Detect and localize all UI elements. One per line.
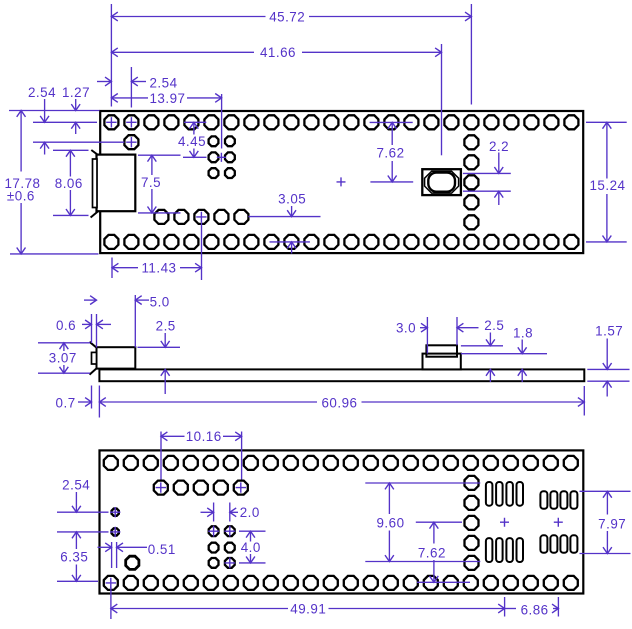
svg-text:1.57: 1.57 (595, 323, 623, 338)
push button body (side view) (423, 354, 461, 370)
svg-text:11.43: 11.43 (141, 260, 176, 275)
dim 9.60 (376, 483, 404, 562)
USB connector lip (side view) (92, 352, 97, 364)
cross left small hole lower (110, 527, 120, 537)
edge extension line top-left (9, 110, 100, 112)
svg-text:13.97: 13.97 (149, 91, 185, 106)
dim 2.5 reference line (actuator top) (461, 345, 503, 347)
dim 45.72 (111, 9, 471, 24)
dim 7.5 reference lines (138, 155, 181, 213)
side view PCB bar (99, 369, 584, 381)
svg-text:2.54: 2.54 (149, 75, 177, 90)
board bottom extension line left (10, 253, 99, 255)
dim 4.0 (241, 531, 261, 563)
svg-text:6.86: 6.86 (521, 602, 549, 617)
plated-hole cross pin2 (126, 117, 136, 127)
top view board outline (100, 111, 583, 253)
dim 0.51 extension lines (112, 542, 117, 568)
svg-text:2.54: 2.54 (62, 477, 90, 492)
ext line board right edge (side, lower) (583, 386, 585, 416)
dim 2.5 reference line (USB top) (138, 346, 181, 348)
plated-hole cross inner row center (196, 212, 206, 222)
cross inner row hole 5 (236, 482, 246, 492)
top view top pin row (24 holes) (104, 115, 578, 129)
top view hole below pin 2 (124, 135, 138, 149)
USB connector lip (top view) (93, 159, 98, 208)
dim 8.06 (55, 150, 83, 215)
svg-text:5.0: 5.0 (150, 295, 170, 310)
dim 11.43 extension lines (112, 222, 202, 280)
cross 2mm group top-right (224, 526, 235, 537)
svg-text:1.27: 1.27 (62, 85, 90, 100)
dim 13.97 extension line right (221, 94, 223, 149)
svg-text:49.91: 49.91 (290, 601, 326, 616)
dim 1.57 (595, 323, 623, 396)
svg-text:7.62: 7.62 (376, 145, 404, 160)
bottom view right middle column holes (465, 476, 479, 570)
USB corner tick upper (side view) (90, 342, 97, 348)
dim 2.5 (button height) (484, 318, 504, 382)
USB corner tick lower (top view) (91, 211, 99, 218)
svg-text:3.07: 3.07 (49, 351, 77, 366)
svg-text:7.5: 7.5 (141, 175, 161, 190)
SMD pad group upper-left (486, 482, 523, 506)
dim 2.2 reference lines (463, 173, 511, 191)
USB corner tick upper (top view) (91, 150, 98, 155)
dim 1.8 (513, 325, 533, 382)
dim 15.24 reference lines (586, 122, 627, 242)
bottom view 2mm-grid hole group (2x3) (209, 526, 235, 568)
dim 0.6 (56, 318, 111, 333)
ext line USB shell front (side, upper) (96, 314, 98, 348)
svg-text:3.05: 3.05 (278, 191, 306, 206)
svg-text:4.45: 4.45 (178, 134, 206, 149)
svg-text:10.16: 10.16 (186, 429, 222, 444)
dim 8.06 reference lines (53, 150, 89, 215)
svg-text:0.7: 0.7 (56, 395, 76, 410)
SMD pad group lower-right (540, 535, 577, 553)
row2 extension line left (33, 141, 124, 143)
svg-text:2.2: 2.2 (489, 139, 509, 154)
dim 9.60 reference lines (365, 483, 480, 562)
dim 6.86 (505, 602, 559, 617)
dim 1.8 reference line (button body top) (461, 353, 547, 355)
dim 1.57 reference lines (587, 369, 629, 381)
svg-text:9.60: 9.60 (376, 515, 404, 530)
dim 13.97 (111, 91, 221, 106)
bottom view large hole (126, 556, 139, 569)
dim 7.97 (598, 491, 626, 553)
push button U1 (top view) (422, 169, 461, 195)
push button actuator (side view) (426, 345, 457, 356)
cross inner row hole 1 (156, 482, 166, 492)
dim 41.66 (111, 45, 441, 60)
ext line USB lip front (side, upper) (91, 314, 93, 343)
plated-hole cross hole below pin2 (126, 137, 136, 147)
dim 5.0 (84, 295, 170, 310)
board center fiducial cross (337, 177, 346, 186)
dim 4.45 reference lines (183, 122, 207, 157)
dim 0.51 (98, 542, 176, 557)
dim 3.05 reference lines (248, 217, 320, 242)
svg-text:2.54: 2.54 (28, 85, 56, 100)
SMD pad group upper-right (540, 491, 577, 509)
svg-text:1.8: 1.8 (513, 325, 533, 340)
dim 2.54 (top, pin pitch) (97, 75, 178, 90)
plated-hole cross pin1 (106, 117, 116, 127)
dim 7.62 reference lines (top view) (370, 122, 414, 181)
dim 1.27 (left) (62, 85, 90, 134)
svg-text:2.5: 2.5 (156, 318, 176, 333)
dim 3.07 reference lines (38, 343, 90, 373)
USB connector shell (side view) (97, 347, 136, 368)
svg-text:8.06: 8.06 (55, 176, 83, 191)
dim 2.0 extension lines (214, 503, 230, 522)
svg-text:0.6: 0.6 (56, 318, 76, 333)
bottom view left small hole lower (112, 528, 119, 535)
svg-text:45.72: 45.72 (269, 9, 305, 24)
top view right middle column holes (464, 135, 478, 229)
dim 3.05 (278, 191, 306, 253)
dim 6.86 extension line (557, 597, 559, 617)
row1 extension line left (33, 121, 97, 123)
top view inner pad row (5 holes) (154, 210, 248, 224)
svg-text:3.0: 3.0 (396, 320, 416, 335)
cross bottom row hole 1 (106, 578, 116, 588)
ext line board left edge (side, lower) (98, 386, 100, 418)
bottom view left small hole upper (112, 509, 119, 516)
ext line lip front (side, lower) (91, 386, 93, 409)
dim 3.07 (49, 343, 77, 373)
cross 2mm group top-left (208, 526, 219, 537)
svg-text:6.35: 6.35 (60, 549, 88, 564)
bottom view bottom pin row (24 holes) (104, 576, 578, 590)
svg-text:60.96: 60.96 (321, 395, 357, 410)
dim 2.54 (top, pin pitch) extension line (130, 67, 132, 108)
SMD pad group lower-left (486, 538, 523, 562)
svg-text:7.62: 7.62 (418, 545, 446, 560)
dim 7.62 reference lines (bottom view) (416, 522, 470, 582)
svg-text:4.0: 4.0 (241, 540, 261, 555)
top view 2mm-grid hole group (2x3) (209, 136, 235, 178)
dim 2.54 (left rows) (28, 85, 56, 155)
ext line button actuator right (side) (456, 317, 458, 345)
dim 7.62 (bottom view) (418, 522, 446, 582)
top view bottom pin row (24 holes) (104, 235, 578, 249)
bottom view board outline (100, 450, 584, 593)
svg-text:2.0: 2.0 (240, 505, 260, 520)
USB corner tick lower (side view) (90, 368, 97, 374)
dim 2.0 (201, 505, 260, 520)
svg-text:41.66: 41.66 (260, 45, 296, 60)
dim 10.16 extension lines (161, 432, 242, 480)
bottom view top pin row (24 holes) (104, 456, 578, 470)
dim 10.16 (161, 429, 242, 444)
dim 2.5 (USB height) (156, 318, 176, 394)
dim 45.72 extension line right (hole column) (470, 4, 472, 105)
dim 2.54 reference lines (bottom view left) (57, 512, 109, 532)
svg-text:15.24: 15.24 (589, 178, 625, 193)
dim 49.91 (111, 601, 505, 616)
dim 2.2 (489, 139, 509, 205)
reference cross at 2mm group row 2 (217, 153, 226, 162)
cross left small hole upper (110, 507, 120, 517)
ext line button actuator left (side) (426, 317, 428, 354)
dim 7.62 (top view) (376, 122, 404, 181)
USB connector shell (top view) (97, 155, 136, 212)
dim 4.45 (178, 122, 206, 157)
dim 2.54 (bottom view) (62, 477, 90, 512)
dim 41.66 extension line right (button center) (441, 44, 443, 155)
dim 7.97 reference lines (580, 491, 631, 553)
dim 15.24 (589, 122, 625, 242)
dim 4.0 reference lines (239, 531, 266, 563)
dim 6.35 (60, 532, 88, 581)
ext line USB shell back (side) (134, 295, 136, 348)
dim 0.7 (56, 395, 92, 410)
svg-text:2.5: 2.5 (484, 318, 504, 333)
svg-text:±0.6: ±0.6 (7, 188, 35, 203)
dim 11.43 (112, 260, 202, 275)
dim 60.96 (99, 395, 584, 410)
fiducial cross right (6.86) (554, 518, 563, 527)
fiducial cross left (6.86) (500, 518, 509, 527)
dim 3.0 (396, 320, 479, 335)
svg-text:7.97: 7.97 (598, 516, 626, 531)
dim 49.91 extension lines (111, 587, 505, 620)
dim 45.72 extension line left (pin column 1) (110, 4, 112, 107)
dim 7.5 (141, 155, 161, 213)
bottom view inner pad row (5 holes) (154, 481, 248, 495)
svg-text:0.51: 0.51 (148, 542, 176, 557)
dim 6.35 reference line (57, 580, 98, 582)
cross 2mm group bottom-right (224, 558, 235, 569)
dim 17.78 +/-0.6 (4, 111, 40, 254)
